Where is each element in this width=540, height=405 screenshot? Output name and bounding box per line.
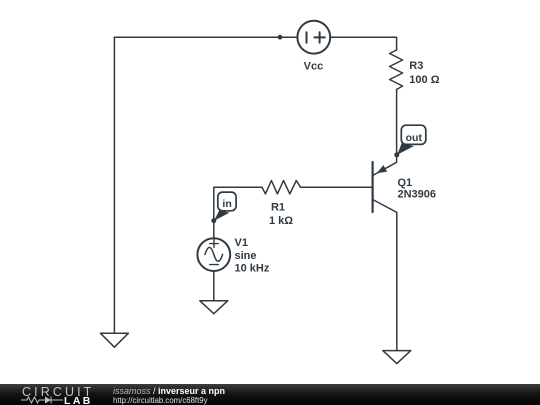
wire top-left horizontal — [114, 36, 297, 38]
svg-text:out: out — [406, 132, 423, 144]
wire V1 to ground — [213, 271, 215, 301]
ground left — [100, 333, 128, 347]
V1 sine wave — [205, 247, 223, 261]
resistor R1 — [262, 181, 301, 194]
transistor Q1 collector — [373, 200, 397, 213]
Vcc minus terminal bar — [306, 32, 308, 43]
source V1 circle — [197, 238, 230, 271]
wire Vcc to R3 corner — [330, 37, 396, 50]
footer line 1 — [113, 386, 225, 396]
V1 plus sign — [210, 239, 219, 247]
wire left vertical — [113, 37, 115, 333]
V1 minus sign — [210, 264, 219, 266]
logo LAB text — [64, 395, 93, 405]
svg-text:1 kΩ: 1 kΩ — [269, 215, 293, 227]
resistor R3 — [390, 50, 403, 90]
transistor Q1 emitter wire — [373, 155, 396, 175]
node junction dot top — [278, 35, 283, 40]
svg-text:R1: R1 — [271, 202, 285, 214]
svg-text:V1: V1 — [235, 237, 248, 249]
flag out box — [401, 125, 426, 144]
flag in pointer — [214, 210, 230, 221]
svg-text:Vcc: Vcc — [304, 61, 324, 73]
logo resistor-diode glyph — [21, 395, 63, 405]
transistor Q1 base bar — [372, 162, 374, 212]
flag in box — [218, 192, 236, 211]
svg-text:100 Ω: 100 Ω — [409, 74, 439, 86]
svg-text:in: in — [222, 198, 231, 210]
Vcc plus sign — [314, 32, 324, 43]
wire R1 to in corner — [214, 187, 262, 238]
footer line 2 — [113, 396, 207, 405]
svg-text:R3: R3 — [409, 60, 423, 72]
svg-text:10 kHz: 10 kHz — [235, 263, 270, 275]
svg-text:Q1: Q1 — [398, 177, 413, 189]
node out junction dot — [394, 152, 399, 157]
voltage source Vcc circle — [297, 21, 330, 54]
svg-text:2N3906: 2N3906 — [398, 189, 437, 201]
node in junction dot — [211, 218, 216, 223]
wire R3 to out node — [396, 90, 398, 155]
wire base from R1 — [301, 186, 372, 188]
transistor Q1 emitter arrowhead — [377, 165, 388, 173]
flag out pointer — [397, 143, 414, 155]
svg-text:sine: sine — [235, 250, 257, 262]
logo CIRCUIT text — [22, 385, 94, 399]
wire collector down — [396, 212, 398, 350]
ground bottom right — [383, 351, 411, 364]
footer bar — [0, 384, 540, 405]
ground V1 — [200, 301, 228, 314]
